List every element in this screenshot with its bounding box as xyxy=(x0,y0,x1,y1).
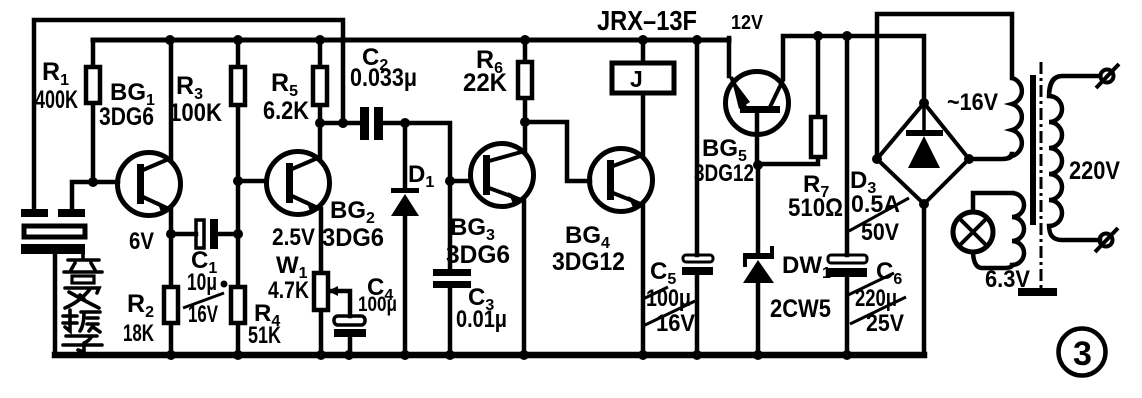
svg-text:6V: 6V xyxy=(129,228,154,255)
svg-text:51K: 51K xyxy=(248,322,281,349)
svg-text:16V: 16V xyxy=(656,310,695,337)
svg-text:3DG6: 3DG6 xyxy=(99,103,154,131)
svg-text:6.2K: 6.2K xyxy=(263,97,309,125)
svg-text:~16V: ~16V xyxy=(947,89,998,116)
svg-text:3DG12: 3DG12 xyxy=(694,160,754,187)
svg-text:0.5A: 0.5A xyxy=(851,191,900,218)
svg-text:220V: 220V xyxy=(1069,157,1120,185)
svg-text:3DG6: 3DG6 xyxy=(446,241,510,269)
svg-text:3DG6: 3DG6 xyxy=(322,224,384,252)
svg-text:510Ω: 510Ω xyxy=(788,194,843,222)
svg-text:22K: 22K xyxy=(463,69,507,97)
svg-text:0.01μ: 0.01μ xyxy=(456,306,507,333)
svg-text:400K: 400K xyxy=(35,86,78,114)
svg-text:10μ: 10μ xyxy=(187,269,217,296)
svg-text:JRX–13F: JRX–13F xyxy=(597,5,697,36)
svg-text:3: 3 xyxy=(1073,335,1092,373)
svg-text:100μ: 100μ xyxy=(646,285,691,312)
svg-text:2CW5: 2CW5 xyxy=(770,295,831,323)
svg-text:4.7K: 4.7K xyxy=(268,277,310,304)
svg-text:J: J xyxy=(630,66,643,92)
svg-text:100K: 100K xyxy=(169,99,222,127)
svg-text:12V: 12V xyxy=(731,12,764,34)
svg-text:2.5V: 2.5V xyxy=(272,224,315,251)
svg-text:100μ: 100μ xyxy=(358,293,397,316)
svg-text:6.3V: 6.3V xyxy=(985,266,1030,293)
svg-text:18K: 18K xyxy=(123,320,154,347)
svg-text:0.033μ: 0.033μ xyxy=(350,64,417,92)
svg-text:50V: 50V xyxy=(861,219,899,246)
svg-text:3DG12: 3DG12 xyxy=(552,248,625,276)
